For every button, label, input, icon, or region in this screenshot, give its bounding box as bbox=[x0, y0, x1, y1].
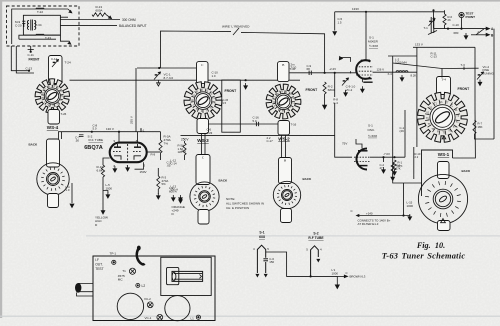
resistor R-6 bbox=[443, 14, 446, 25]
osc grids dashed bbox=[354, 157, 370, 161]
wire balun top bbox=[12, 9, 68, 44]
wafer switch rear D bbox=[418, 174, 467, 223]
arrow fine tuning ground bbox=[478, 80, 482, 86]
trimmer VC-2 fine tuning bbox=[477, 72, 484, 80]
label FRONT ws4 bbox=[29, 57, 40, 61]
svg-text:WS-3: WS-3 bbox=[197, 138, 209, 143]
wire box left col ext bbox=[413, 147, 415, 179]
tube 6BQ7A internals bbox=[113, 144, 142, 161]
svg-text:POINT: POINT bbox=[466, 15, 476, 19]
label IF OUT TEST bbox=[95, 258, 103, 271]
junction C-4 top bbox=[334, 72, 336, 74]
svg-text:FRONT: FRONT bbox=[306, 88, 319, 92]
svg-text:BACK: BACK bbox=[29, 143, 38, 147]
wire osc C-1 vert bbox=[404, 110, 406, 157]
svg-text:R-4: R-4 bbox=[182, 150, 187, 154]
svg-text:S-2: S-2 bbox=[313, 232, 318, 236]
svg-text:OSC.: OSC. bbox=[368, 128, 376, 132]
label R-4 bbox=[182, 150, 187, 154]
mixer heater bar bbox=[363, 81, 372, 83]
svg-text:TEST: TEST bbox=[95, 267, 103, 271]
svg-text:1.5: 1.5 bbox=[223, 101, 227, 105]
svg-text:R: R bbox=[191, 99, 193, 102]
label T-10 bbox=[291, 62, 297, 69]
coupling box right of WS-3 bbox=[222, 80, 241, 132]
junction bus at WS-2 tab bbox=[282, 79, 284, 81]
label S-1 6X8 bottom bbox=[259, 231, 264, 235]
junction L-15 bbox=[402, 214, 404, 216]
slug rack mechanism bbox=[167, 267, 203, 284]
wire tube plate drop b bbox=[137, 132, 139, 143]
wire box osc left bbox=[392, 56, 394, 160]
shaft plug knob bbox=[75, 283, 81, 293]
arrow B+ left bbox=[356, 214, 360, 217]
neutralizing stub arrow bbox=[339, 57, 350, 62]
slash through wire-L annotation bbox=[233, 28, 239, 35]
label RF TUBE bottom bbox=[308, 236, 324, 240]
svg-text:6.8K: 6.8K bbox=[97, 169, 104, 173]
wafer switch WS-1 bbox=[418, 92, 468, 142]
junction grid node bbox=[324, 72, 326, 74]
label 8.2K bbox=[411, 73, 417, 77]
wire B+ feed top bbox=[161, 31, 232, 68]
connects note bbox=[358, 219, 391, 227]
wire L-5 stub bbox=[103, 191, 108, 194]
wire R-7 bottom bbox=[475, 134, 495, 139]
svg-text:C-17: C-17 bbox=[267, 139, 274, 143]
arrow R-1 ground bbox=[393, 169, 397, 175]
capacitor C-9 bbox=[309, 71, 311, 75]
label T-23 bbox=[207, 128, 213, 135]
label C-10 1.0 bbox=[212, 71, 219, 78]
wire test point drop bbox=[461, 18, 463, 29]
junction C-13 bbox=[28, 70, 30, 72]
junction AB b bbox=[460, 28, 462, 30]
svg-text:T-26: T-26 bbox=[61, 112, 67, 116]
label 300 OHM bbox=[122, 18, 136, 22]
label 75V bbox=[342, 141, 347, 145]
svg-text:AT FILTER E1-3: AT FILTER E1-3 bbox=[358, 222, 379, 226]
wire R-3A top bbox=[160, 132, 162, 140]
wire R-6 bottom bbox=[444, 25, 446, 29]
wire right edge col bbox=[493, 29, 495, 139]
arrow R-13 to line bbox=[106, 15, 112, 19]
label C brown bbox=[346, 271, 348, 275]
svg-text:C: C bbox=[193, 104, 195, 107]
label S-1 MIXER bbox=[369, 35, 374, 39]
svg-text:T-4: T-4 bbox=[441, 78, 446, 82]
svg-text:VC-2: VC-2 bbox=[144, 297, 151, 301]
T-1 screw head bbox=[129, 268, 135, 274]
svg-text:1000: 1000 bbox=[332, 271, 339, 275]
svg-text:8.2K: 8.2K bbox=[411, 73, 417, 77]
label ORANGE bbox=[172, 205, 185, 216]
label C-16 5.0 bbox=[253, 116, 260, 123]
tube pin 3 bbox=[144, 164, 146, 168]
resistor R-1 bbox=[393, 160, 396, 170]
label 130V bbox=[106, 127, 114, 131]
svg-text:6X8: 6X8 bbox=[259, 235, 265, 239]
label -2.2V bbox=[329, 67, 336, 71]
wire box right col bbox=[474, 47, 476, 110]
vacuum tube V1 6BQ7A envelope bbox=[110, 143, 147, 163]
wire R-5 down bbox=[184, 155, 186, 160]
wire R-3A bottom bbox=[160, 153, 162, 160]
coil T-33 bbox=[36, 34, 44, 35]
vacuum tube V3 oscillator (1/2 6X8) envelope bbox=[356, 149, 367, 170]
resistor R-5 bbox=[183, 143, 186, 155]
wire 133V line bbox=[335, 11, 445, 13]
capacitor C-16 bbox=[256, 122, 258, 126]
mixer grids dashed bbox=[356, 67, 373, 75]
antenna balun dashed enclosure bbox=[7, 6, 80, 46]
label L2 bbox=[142, 284, 146, 288]
wire 133V drop to mixer plate bbox=[365, 12, 367, 61]
wafer C bottom tab bbox=[198, 210, 209, 225]
wire heater link bbox=[266, 252, 338, 276]
wafer switch rear A bbox=[37, 163, 69, 195]
svg-text:Fig. 10.: Fig. 10. bbox=[416, 241, 445, 250]
coax cable tip bbox=[137, 246, 141, 251]
arrow VC-2 ground bbox=[344, 90, 348, 96]
svg-text:1000: 1000 bbox=[106, 186, 113, 190]
label C-4 bbox=[333, 98, 338, 105]
svg-text:T-23: T-23 bbox=[207, 131, 213, 135]
label T-22 bbox=[37, 10, 43, 14]
label T-1 chassis bbox=[122, 269, 126, 273]
svg-text:X-3: X-3 bbox=[388, 72, 393, 76]
label C-1 12K bbox=[400, 126, 405, 133]
wire B+ feed top cont bbox=[241, 32, 325, 72]
svg-text:NOTE:: NOTE: bbox=[226, 197, 235, 201]
wire osc plate up bbox=[356, 139, 362, 149]
arrow S-2 heater ground bbox=[316, 259, 320, 263]
label VC-2 FINE TUNING bbox=[483, 65, 495, 76]
resistor R-7 bbox=[473, 120, 476, 134]
label L1 chassis bbox=[191, 317, 195, 321]
scan edge shading left bbox=[0, 0, 2, 318]
slug rack enclosure bbox=[161, 257, 211, 295]
wafer C top tab bbox=[196, 155, 210, 185]
svg-text:S-1: S-1 bbox=[259, 231, 264, 235]
svg-text:FRONT: FRONT bbox=[458, 87, 471, 91]
svg-text:C: C bbox=[351, 209, 353, 213]
arrow mixer cathode ground bbox=[361, 86, 365, 92]
label R-3 bbox=[162, 176, 169, 186]
svg-text:1.5: 1.5 bbox=[338, 20, 342, 24]
box pin3 to 130V bbox=[135, 162, 144, 169]
svg-text:1000: 1000 bbox=[407, 204, 414, 208]
svg-text:WS-4: WS-4 bbox=[47, 125, 59, 130]
junction C-11 bbox=[30, 51, 32, 53]
svg-text:600A: 600A bbox=[96, 8, 103, 12]
label YELLOW AGC bbox=[95, 216, 108, 227]
wire C-2 drop bbox=[383, 157, 385, 162]
svg-text:T-16: T-16 bbox=[291, 122, 297, 126]
label C-9 68 bbox=[307, 64, 312, 71]
arrow orange feed bbox=[179, 197, 183, 203]
label 250V bbox=[181, 138, 189, 142]
arrow S-1 heater ground a bbox=[255, 274, 259, 278]
svg-text:75V: 75V bbox=[342, 141, 347, 145]
wire tube right to R-3A bbox=[147, 151, 161, 153]
wafer switch WS-2 bbox=[266, 84, 301, 119]
label half 6X8 bbox=[369, 44, 378, 48]
tube pin numbers bbox=[114, 139, 116, 143]
wafer switch WS-4 bbox=[35, 79, 69, 113]
svg-text:150: 150 bbox=[269, 260, 274, 264]
svg-text:TUNING: TUNING bbox=[483, 71, 495, 75]
label half 6X8 osc bbox=[368, 134, 377, 138]
wafer A bottom tab bbox=[48, 194, 59, 208]
wire C-11 drop bbox=[30, 46, 32, 52]
label FRONT ws3 bbox=[225, 89, 238, 93]
svg-text:TP-1: TP-1 bbox=[110, 251, 117, 255]
capacitor C-7 bbox=[79, 135, 84, 137]
wire B diagonal bbox=[471, 27, 490, 36]
resistor R-3A bbox=[159, 140, 162, 153]
svg-text:½ 6X8: ½ 6X8 bbox=[369, 44, 378, 48]
wire T-10 grid line bbox=[290, 72, 357, 74]
arrow R-2 ground bbox=[323, 105, 327, 109]
label S-2 RF TUBE bbox=[88, 134, 93, 138]
arrow C-5 to mixer bbox=[333, 32, 337, 35]
wire 250V return bbox=[181, 134, 335, 136]
svg-text:R: R bbox=[201, 89, 203, 92]
wafer switch rear C bbox=[190, 182, 219, 211]
label L-15 1000 bbox=[407, 201, 414, 208]
heater element S-2 (RF tube) bbox=[311, 246, 319, 277]
label FRONT ws2 bbox=[306, 88, 319, 92]
label OSC bbox=[368, 128, 376, 132]
label T-26 bbox=[61, 112, 67, 116]
wire 300-ohm input upper bbox=[60, 19, 120, 21]
label WS-3 bbox=[197, 138, 209, 143]
svg-text:C: C bbox=[44, 101, 46, 104]
label 6X8 bottom bbox=[259, 235, 265, 239]
label C-2 47 bbox=[380, 163, 385, 170]
label WS-2 bbox=[278, 136, 290, 141]
label 133V bbox=[352, 7, 359, 11]
label brown 63 bbox=[350, 275, 366, 279]
arrow heater L-11 ground bbox=[335, 276, 339, 288]
label T-34 bbox=[36, 23, 42, 27]
coax cable curve bbox=[137, 249, 145, 265]
label WS-1 bbox=[438, 152, 450, 157]
wire balun lower out bbox=[44, 35, 70, 41]
svg-text:VC-1: VC-1 bbox=[145, 316, 152, 320]
label 680 bbox=[454, 31, 459, 35]
svg-text:5.0: 5.0 bbox=[93, 127, 97, 131]
transformer T-34 box bbox=[23, 15, 60, 35]
arrow R-3 ground bbox=[157, 193, 161, 199]
trimmer VC-1 bbox=[154, 72, 161, 80]
label X-1 bbox=[140, 128, 145, 132]
label R-10 22 bbox=[415, 152, 421, 159]
svg-text:-2.2V: -2.2V bbox=[329, 67, 336, 71]
svg-text:MC: MC bbox=[118, 277, 124, 281]
wire WS-3 tab to rear C a bbox=[201, 134, 203, 155]
label RF TUBE bbox=[89, 138, 104, 142]
arrow antenna lower lead bbox=[68, 42, 71, 44]
svg-text:R: R bbox=[285, 91, 287, 94]
svg-text:-7.0V: -7.0V bbox=[383, 152, 390, 156]
label L-5 1000 bbox=[106, 183, 113, 190]
svg-text:BACK: BACK bbox=[219, 179, 228, 183]
svg-text:FRONT: FRONT bbox=[29, 57, 40, 61]
wire osc grid right bbox=[370, 156, 405, 158]
svg-text:68: 68 bbox=[307, 67, 311, 71]
wafer WS-2 top tab bbox=[278, 62, 290, 82]
junction osc grid bbox=[382, 156, 384, 158]
wafer WS-4 bottom tab bbox=[48, 110, 60, 125]
label WS-4 bbox=[47, 125, 59, 130]
label C-10 680 bbox=[453, 23, 460, 27]
wire B+ lead bbox=[358, 215, 404, 217]
svg-text:680: 680 bbox=[454, 31, 459, 35]
svg-text:2.2: 2.2 bbox=[415, 155, 419, 159]
label C red bbox=[351, 209, 353, 213]
wire R-2 down bbox=[324, 94, 326, 105]
label 6BQ7A bbox=[84, 145, 103, 151]
label C-7 bbox=[75, 135, 80, 142]
label L-13 bbox=[171, 184, 179, 191]
wire AGC bus y80 bbox=[70, 79, 301, 81]
svg-text:R.F TUBE: R.F TUBE bbox=[308, 236, 324, 240]
arrow R-8 down bbox=[391, 173, 395, 181]
wire balun stub bbox=[19, 38, 56, 40]
capacitor C-11 stub bbox=[28, 48, 34, 50]
heater S-1 pin 5 bbox=[267, 247, 269, 251]
svg-text:C-13: C-13 bbox=[431, 55, 438, 59]
label C-15 marks bbox=[223, 98, 229, 105]
wire R-3 bot bbox=[157, 189, 159, 194]
junction 130V a bbox=[91, 131, 93, 133]
svg-text:CH. E POSITION: CH. E POSITION bbox=[226, 206, 249, 210]
trimmer C-12/T-24 bbox=[52, 60, 59, 68]
TP-1 jack bbox=[112, 260, 116, 264]
label B bbox=[491, 33, 494, 37]
wire left drop C-11 bbox=[11, 46, 29, 71]
svg-text:BACK: BACK bbox=[303, 177, 312, 181]
resistor R-8 bbox=[391, 163, 394, 173]
wire box left col bbox=[416, 47, 418, 147]
tick T-3 node bbox=[463, 67, 465, 71]
svg-text:T-24: T-24 bbox=[65, 61, 71, 65]
chassis outline bbox=[93, 256, 215, 321]
wire box right col ext bbox=[453, 110, 476, 158]
svg-text:T1: T1 bbox=[122, 269, 126, 273]
label C-20 bbox=[15, 20, 22, 28]
label T-3 bbox=[461, 63, 466, 67]
svg-text:R: R bbox=[437, 131, 439, 134]
wire L-15 h bbox=[404, 215, 410, 218]
wire R-6 top bbox=[444, 10, 446, 14]
label -7.0V bbox=[383, 152, 390, 156]
svg-text:1.0: 1.0 bbox=[212, 74, 216, 78]
test point jack bbox=[459, 12, 464, 17]
heater S-2 pin 5 bbox=[320, 247, 322, 251]
svg-text:5.0: 5.0 bbox=[253, 119, 257, 123]
wafer switch WS-3 bbox=[184, 82, 222, 120]
arrow L-4 ground bbox=[70, 204, 74, 208]
svg-text:C-12: C-12 bbox=[51, 57, 58, 61]
svg-text:(2K: (2K bbox=[400, 129, 405, 133]
arrow AB ground bbox=[464, 33, 468, 39]
wire drop to RF tube bbox=[135, 68, 137, 132]
junction R-1 top bbox=[393, 156, 395, 158]
label L-11 1000 bbox=[332, 268, 339, 275]
wire 250V drop bbox=[184, 141, 186, 143]
column separator line lower bbox=[0, 316, 500, 317]
VC-2 screw bbox=[147, 302, 153, 308]
wafer WS-2 bottom tab bbox=[278, 121, 290, 136]
wire T-1 bottom feed bbox=[433, 10, 435, 28]
label BALANCED INPUT bbox=[119, 24, 147, 28]
arrow C-2 ground bbox=[382, 167, 386, 173]
label VC-2 chassis bbox=[144, 297, 151, 301]
label MIXER bbox=[368, 39, 379, 43]
label C-5 1.5 bbox=[338, 17, 343, 24]
svg-text:X-1: X-1 bbox=[140, 128, 145, 132]
arrow AGC down bbox=[101, 211, 105, 214]
wire C-4 to osc grid bbox=[335, 103, 352, 157]
svg-text:R: R bbox=[196, 91, 198, 94]
label 2.2 C-17 bbox=[267, 136, 274, 143]
label 150V below bbox=[140, 170, 147, 174]
label L-12 bbox=[171, 158, 178, 165]
junction bus at WS-3 tab bbox=[201, 79, 203, 81]
svg-text:BACK: BACK bbox=[462, 169, 471, 173]
svg-text:1.0: 1.0 bbox=[66, 188, 70, 192]
svg-text:130 V: 130 V bbox=[106, 127, 114, 131]
svg-text:600-A: 600-A bbox=[171, 188, 179, 192]
label VC-1 chassis bbox=[145, 316, 152, 320]
arrow VC-1 ground bbox=[157, 80, 161, 86]
label TEST POINT bbox=[466, 11, 476, 18]
wire R-10 down bbox=[102, 177, 104, 212]
svg-text:L1: L1 bbox=[191, 317, 195, 321]
label BACK c bbox=[219, 179, 228, 183]
svg-text:C: C bbox=[201, 110, 203, 113]
svg-text:8.7-3.0: 8.7-3.0 bbox=[164, 76, 174, 80]
wire WS-2 tab to rear B b bbox=[285, 135, 287, 158]
svg-text:½ 6X8: ½ 6X8 bbox=[368, 134, 377, 138]
svg-text:C: C bbox=[44, 89, 46, 92]
svg-text:7%: 7% bbox=[164, 141, 169, 145]
label T-16 bbox=[291, 122, 297, 126]
svg-text:300 OHM: 300 OHM bbox=[122, 18, 136, 22]
svg-text:5%: 5% bbox=[162, 182, 167, 186]
label C-11 bbox=[28, 53, 35, 57]
wire osc top link bbox=[393, 63, 479, 69]
wire 300-ohm input lower bbox=[60, 25, 117, 27]
heater element S-1 (6X8) bbox=[257, 245, 268, 273]
svg-text:T-63 Tuner Schematic: T-63 Tuner Schematic bbox=[382, 251, 466, 260]
svg-text:C-20: C-20 bbox=[15, 24, 22, 28]
svg-text:MIXER: MIXER bbox=[368, 39, 379, 43]
junction T-1 top bbox=[432, 9, 434, 11]
svg-text:VC-2: VC-2 bbox=[346, 88, 353, 92]
arrow antenna top lead bbox=[68, 9, 72, 13]
svg-text:126 V: 126 V bbox=[377, 68, 385, 72]
label 126V bbox=[377, 68, 385, 72]
wire L-15 drop bbox=[403, 183, 405, 216]
heater S-2 pin 4 bbox=[306, 247, 308, 251]
wire 130V line left drop bbox=[59, 132, 80, 139]
trimmer VC-2 mixer bbox=[342, 78, 349, 86]
wire tube plate drop a bbox=[118, 132, 120, 143]
